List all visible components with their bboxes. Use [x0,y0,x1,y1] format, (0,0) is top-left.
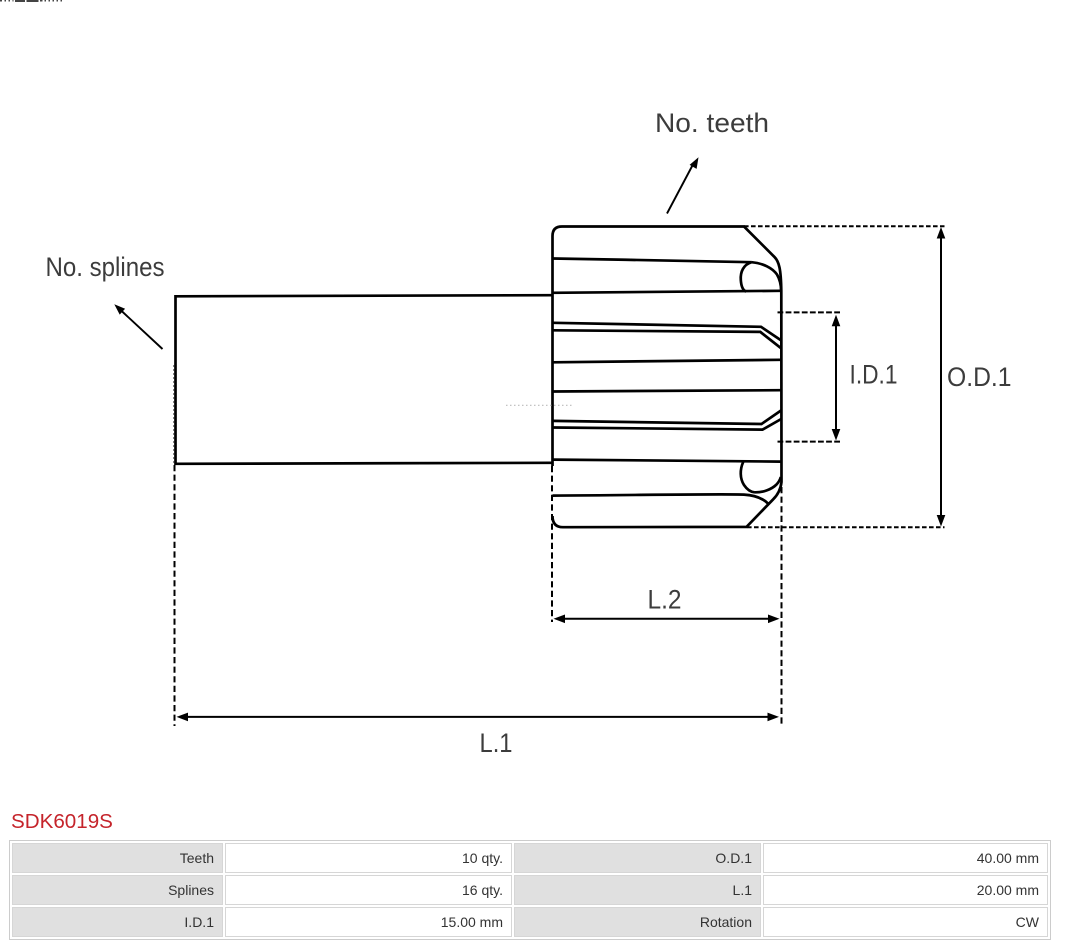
svg-text:O.D.1: O.D.1 [947,362,1012,392]
I.D.1 top extension dashed [778,311,841,313]
tooth line T7 [553,494,769,504]
tooth line T3 [553,360,781,363]
spline wedge upper bottom line [553,330,781,348]
gear hub line lower [553,460,781,462]
spline wedge lower top line [553,411,781,425]
right extension dashed [781,487,783,726]
No. splines leader arrow [120,310,163,350]
svg-text:L.2: L.2 [648,584,682,614]
svg-text:No. teeth: No. teeth [655,108,769,138]
svg-text:I.D.1: I.D.1 [850,360,898,390]
tooth end dome top right branch [752,262,782,291]
L.2 left extension dashed [551,466,553,622]
tooth end dome bottom left branch [741,462,755,492]
tooth end dome top left branch [741,262,752,291]
L.1 left extension dashed [174,465,176,726]
svg-text:No. splines: No. splines [46,252,165,282]
spline wedge upper top line [553,323,781,341]
tooth line T4 [553,390,781,391]
I.D.1 bottom extension dashed [778,441,841,443]
tooth line T1 [553,259,752,263]
part number title [11,810,113,834]
cropped text remnant top-left [0,0,70,4]
shaft [176,295,553,464]
svg-text:L.1: L.1 [480,728,513,758]
No. teeth leader arrow [667,164,694,214]
spline wedge lower bottom line [553,419,781,430]
L.2 dimension line [564,618,769,620]
fine dotted extension beside shaft edge [173,365,175,464]
tooth end dome bottom right branch [755,477,781,492]
I.D.1 dimension line [835,326,837,429]
centerline dotted [506,404,574,406]
O.D.1 bottom extension dashed [747,526,945,528]
O.D.1 dimension line [940,233,942,521]
gear body outline [553,227,782,528]
L.1 dimension line [187,716,769,718]
O.D.1 top extension dashed [744,225,945,227]
gear hub line upper [553,291,782,293]
specification table [9,840,1051,940]
